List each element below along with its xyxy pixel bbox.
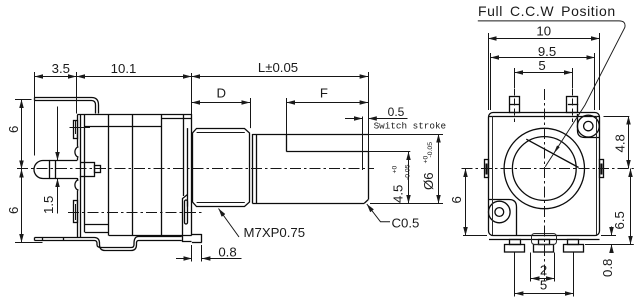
svg-text:10.1: 10.1 xyxy=(111,61,137,76)
svg-text:9.5: 9.5 xyxy=(538,44,556,59)
svg-text:F: F xyxy=(320,86,328,101)
svg-text:1.5: 1.5 xyxy=(41,196,56,214)
svg-text:2: 2 xyxy=(540,263,547,278)
svg-text:D: D xyxy=(217,86,227,101)
svg-text:6: 6 xyxy=(6,207,21,214)
svg-text:5: 5 xyxy=(540,278,547,293)
svg-text:5: 5 xyxy=(538,58,545,73)
svg-text:10: 10 xyxy=(536,24,551,39)
svg-text:6.5: 6.5 xyxy=(612,211,627,229)
svg-text:6: 6 xyxy=(449,196,464,203)
svg-text:-0.05: -0.05 xyxy=(427,142,434,158)
svg-text:M7XP0.75: M7XP0.75 xyxy=(244,225,306,240)
svg-text:4.5: 4.5 xyxy=(391,185,406,203)
svg-text:3.5: 3.5 xyxy=(52,61,70,76)
svg-text:4.8: 4.8 xyxy=(613,134,628,152)
svg-text:0.5: 0.5 xyxy=(388,105,405,119)
svg-text:Ø6: Ø6 xyxy=(421,172,436,190)
svg-text:Full C.C.W Position: Full C.C.W Position xyxy=(478,3,616,19)
svg-text:L±0.05: L±0.05 xyxy=(258,60,298,75)
svg-text:Switch stroke: Switch stroke xyxy=(374,121,447,132)
svg-text:0.8: 0.8 xyxy=(218,245,236,260)
svg-text:C0.5: C0.5 xyxy=(392,216,420,231)
svg-text:0.8: 0.8 xyxy=(600,259,615,277)
svg-text:+0: +0 xyxy=(392,166,399,174)
svg-text:6: 6 xyxy=(6,126,21,133)
svg-text:-0.05: -0.05 xyxy=(405,164,412,180)
